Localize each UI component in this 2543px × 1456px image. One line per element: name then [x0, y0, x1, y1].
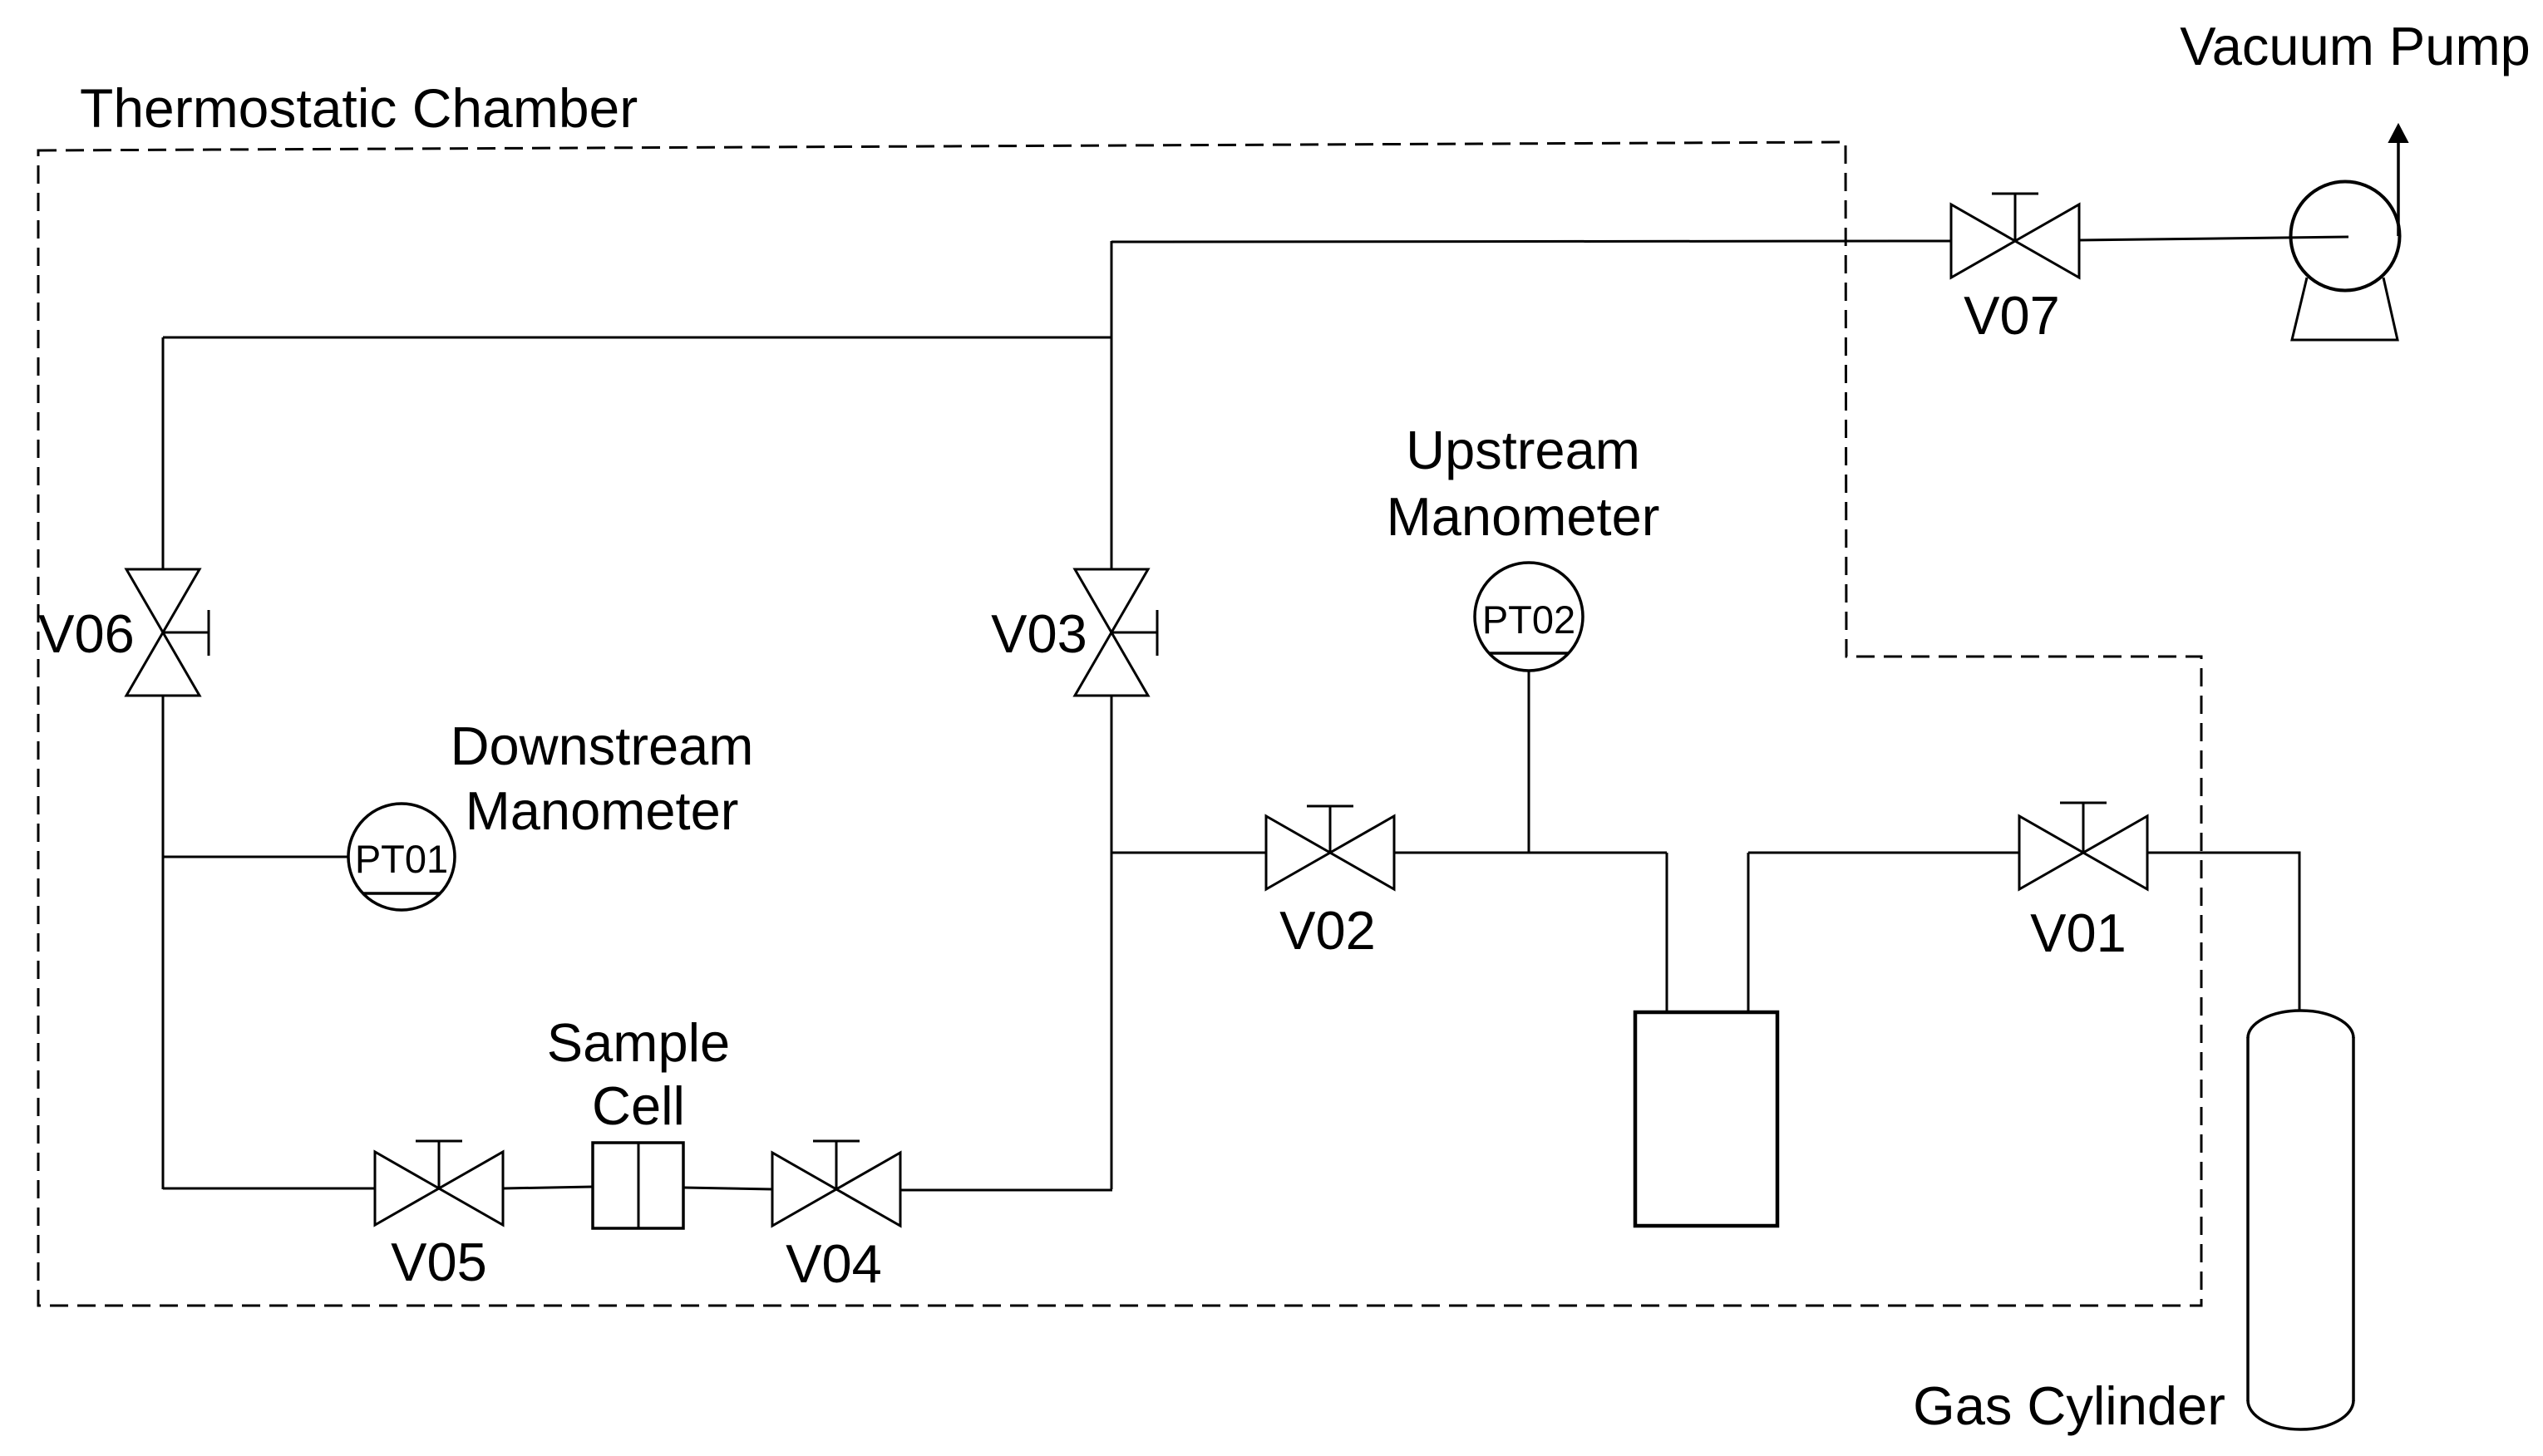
wire V05 to sample cell	[503, 1187, 593, 1188]
svg-text:V07: V07	[1964, 285, 2060, 346]
wire right riser to V01	[1748, 852, 2019, 854]
manometer PT02	[1475, 563, 1583, 671]
svg-text:Manometer: Manometer	[1387, 486, 1660, 547]
valve V02	[1266, 806, 1394, 889]
sample cell	[593, 1143, 683, 1228]
svg-text:Sample: Sample	[547, 1012, 730, 1073]
valve V01	[2019, 803, 2147, 889]
wire manifold to V02	[1111, 852, 1266, 854]
valve V03	[1075, 569, 1157, 696]
svg-text:PT02: PT02	[1482, 598, 1575, 642]
manometer PT01	[348, 804, 455, 910]
wire PT02 stem	[1528, 670, 1530, 853]
valve V07	[1951, 194, 2079, 278]
svg-text:V05: V05	[391, 1232, 487, 1292]
svg-text:Gas Cylinder: Gas Cylinder	[1913, 1375, 2225, 1436]
pump exhaust arrow	[2389, 125, 2407, 142]
wire vertical manifold x=1337 lower	[1111, 696, 1113, 1189]
valve V05	[375, 1141, 503, 1225]
wire vertical x=196 upper	[162, 337, 165, 569]
valve V04	[772, 1141, 900, 1226]
svg-text:V03: V03	[991, 603, 1087, 664]
svg-text:V04: V04	[786, 1233, 882, 1294]
wire V07 to vacuum pump	[2079, 237, 2348, 240]
wire reservoir right riser	[1747, 853, 1750, 1012]
svg-text:Manometer: Manometer	[466, 780, 739, 841]
svg-text:Vacuum Pump: Vacuum Pump	[2180, 16, 2530, 76]
gas cylinder	[2248, 1011, 2353, 1429]
svg-text:Cell: Cell	[592, 1075, 685, 1136]
wire top manifold to V07	[1111, 241, 1952, 242]
wire reservoir left riser	[1666, 853, 1668, 1012]
wire vertical manifold x=1337 upper	[1111, 241, 1113, 569]
wire V02 to reservoir left riser	[1394, 852, 1667, 854]
vacuum pump	[2291, 141, 2400, 340]
wire sample cell to V04	[683, 1188, 772, 1189]
svg-text:PT01: PT01	[355, 837, 448, 881]
svg-text:Upstream: Upstream	[1406, 420, 1640, 480]
svg-text:Downstream: Downstream	[451, 716, 754, 776]
valve V06	[126, 569, 209, 696]
wire vertical x=196 lower	[162, 696, 165, 1189]
wire to PT01	[163, 856, 348, 858]
wire V01 to gas cylinder corner	[2146, 853, 2299, 1011]
svg-text:Thermostatic Chamber: Thermostatic Chamber	[80, 77, 638, 139]
wire horizontal y=406	[163, 337, 1111, 339]
svg-text:V06: V06	[38, 603, 135, 664]
reference volume vessel	[1635, 1012, 1777, 1226]
thermostatic chamber dashed boundary	[38, 142, 2201, 1306]
wire bottom left to V05	[163, 1188, 375, 1190]
wire V04 to vertical manifold	[900, 1189, 1112, 1192]
svg-text:V01: V01	[2030, 903, 2127, 963]
svg-text:V02: V02	[1279, 900, 1376, 961]
